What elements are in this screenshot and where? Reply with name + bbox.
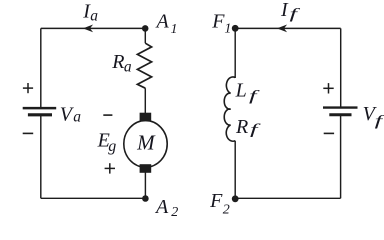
battery Vf plus sign (323, 83, 333, 93)
wire: left loop bottom (41, 197, 146, 199)
wire: coil to F2 (234, 141, 236, 199)
svg-text:f: f (249, 88, 260, 104)
current arrow Ia (83, 25, 93, 33)
svg-text:A: A (154, 196, 169, 216)
svg-text:a: a (90, 8, 98, 25)
svg-text:F: F (211, 11, 225, 33)
motor polarity plus (bottom) (105, 163, 115, 173)
svg-text:I: I (280, 0, 289, 21)
resistor Ra (137, 43, 151, 88)
svg-text:F: F (209, 190, 223, 212)
motor polarity minus (top) (103, 114, 112, 116)
motor terminal block top (140, 113, 152, 122)
battery Va minus sign (23, 132, 34, 134)
svg-text:R: R (111, 51, 124, 73)
wire: left loop left side upper (40, 28, 42, 108)
wire: left loop left side lower (40, 115, 42, 199)
battery Vf minus sign (324, 132, 334, 134)
svg-text:a: a (124, 58, 132, 75)
battery Vf short plate (329, 113, 351, 116)
svg-text:2: 2 (171, 205, 178, 216)
wire: A1 to resistor (144, 28, 146, 43)
node A1 (142, 25, 149, 32)
node F1 (232, 25, 239, 32)
battery Va long plate (23, 107, 57, 110)
battery Va plus sign (23, 83, 33, 93)
wire: resistor to motor (144, 88, 146, 113)
motor circle (124, 121, 167, 168)
svg-text:A: A (155, 11, 170, 33)
svg-text:L: L (235, 79, 247, 101)
wire: left loop top (41, 27, 145, 29)
battery Va short plate (28, 113, 52, 116)
svg-text:a: a (73, 109, 81, 126)
svg-text:f: f (250, 122, 261, 138)
svg-text:g: g (108, 138, 116, 155)
motor terminal block bottom (140, 164, 152, 173)
wire: right loop right side upper (340, 28, 342, 107)
svg-text:R: R (235, 116, 248, 138)
svg-text:f: f (375, 114, 384, 130)
svg-text:1: 1 (171, 22, 178, 37)
svg-text:f: f (290, 6, 301, 22)
svg-text:M: M (136, 131, 156, 155)
wire: right loop bottom (235, 197, 340, 199)
battery Vf long plate (323, 106, 358, 108)
wire: right loop right side lower (340, 115, 342, 199)
wire: F1 to field coil (234, 28, 236, 78)
svg-text:1: 1 (224, 21, 231, 36)
node F2 (232, 195, 239, 202)
wire: motor to A2 (144, 173, 146, 199)
node A2 (142, 195, 149, 202)
field winding coil (Lf, Rf) (224, 77, 235, 141)
wire: right loop top (235, 27, 341, 29)
svg-text:2: 2 (223, 203, 230, 216)
current arrow If (277, 25, 287, 33)
